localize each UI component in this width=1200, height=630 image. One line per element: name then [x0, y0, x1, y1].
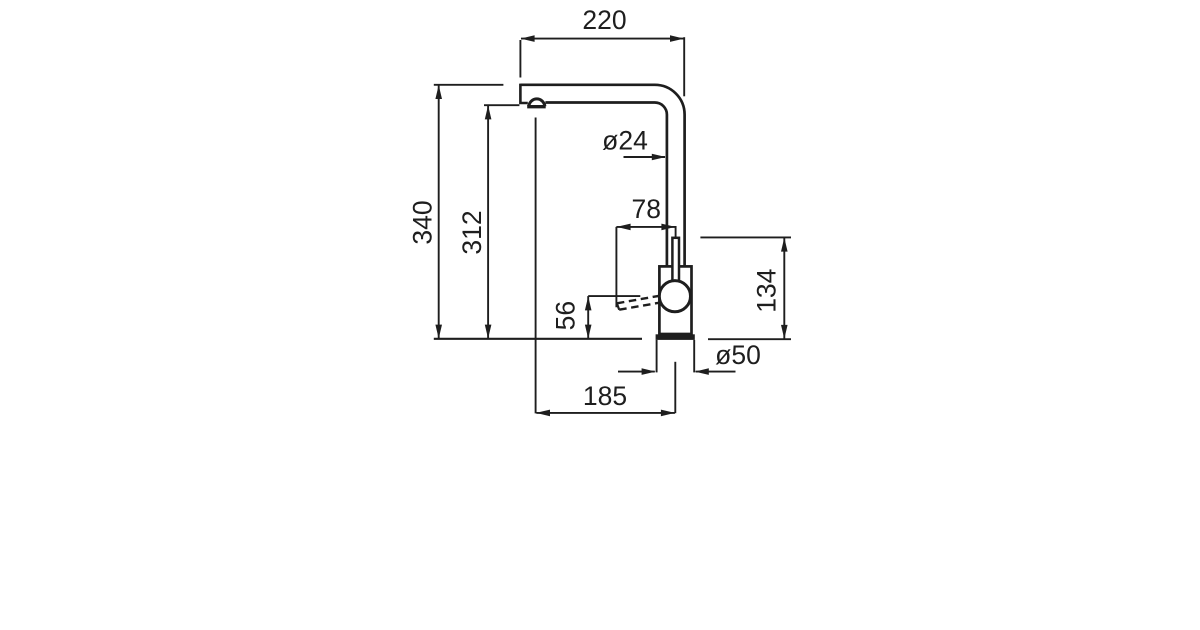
- dashed lever alternate position upper line: [617, 296, 659, 303]
- wire: spout tip left edge and step: [520, 84, 527, 103]
- dim 220 line: [521, 38, 684, 40]
- svg-text:ø24: ø24: [602, 126, 648, 156]
- svg-text:134: 134: [752, 269, 782, 313]
- wire: spout inner contour (underside line, bend, inner riser wall): [545, 103, 667, 267]
- arrowhead 312 down: [485, 325, 492, 339]
- dim 220 left extension: [519, 40, 521, 78]
- arrowhead 134 up: [781, 238, 788, 252]
- counter baseline right segment: [708, 338, 791, 340]
- counter baseline left segment: [434, 338, 642, 340]
- dia50 right extension below flange: [693, 340, 695, 373]
- svg-text:340: 340: [408, 200, 438, 244]
- dashed lever alternate position lower line: [619, 303, 659, 310]
- body of mixer (cartridge housing): [659, 266, 691, 334]
- dia50 left extension below flange: [656, 340, 658, 373]
- dim 185 right extension: [674, 362, 676, 413]
- dia50 left leader: [618, 371, 655, 373]
- svg-text:312: 312: [457, 210, 487, 254]
- dim 312 top extension: [484, 104, 519, 106]
- dim 56 line: [587, 296, 589, 338]
- dia24 leader line: [624, 156, 666, 158]
- dim 78 line with drop to lever: [616, 227, 675, 237]
- dim 134 top extension: [700, 236, 791, 238]
- svg-text:78: 78: [631, 194, 660, 224]
- dashed lever end cap: [617, 303, 620, 310]
- arrowhead 220 right: [670, 35, 684, 42]
- svg-text:185: 185: [583, 381, 627, 411]
- arrowhead 185 right: [661, 410, 675, 417]
- arrowhead 340 down: [435, 325, 442, 339]
- arrowhead dia50 right-pointing: [642, 368, 656, 375]
- wire: spout outer contour (top line, bend, outer riser wall): [520, 85, 684, 266]
- arrowhead dia50 left-pointing: [695, 368, 709, 375]
- dim 220 right extension: [683, 37, 685, 96]
- arrowhead 56 down: [585, 325, 592, 339]
- dim 185 line: [536, 412, 675, 414]
- dim 78 left extension: [615, 227, 617, 307]
- aerator base thick line: [527, 105, 546, 108]
- aerator dome at spout tip: [529, 99, 545, 106]
- arrowhead 220 left: [521, 35, 535, 42]
- arrowhead 312 up: [485, 105, 492, 119]
- arrowhead 134 down: [781, 325, 788, 339]
- dim 340 line: [438, 86, 440, 339]
- arrowhead dia24 right: [652, 154, 666, 161]
- arrowhead 78 left: [617, 224, 631, 231]
- dim 312 line: [487, 106, 489, 338]
- svg-text:ø50: ø50: [715, 340, 761, 370]
- dim 134 line: [783, 238, 785, 339]
- lever handle shaft: [672, 238, 679, 284]
- svg-text:56: 56: [551, 301, 581, 330]
- arrowhead 56 up: [585, 296, 592, 310]
- dim 340 top extension: [434, 84, 504, 86]
- arrowhead 78 right: [661, 224, 675, 231]
- dim 185 left extension: [535, 118, 537, 414]
- ball joint circle: [659, 281, 690, 312]
- dia50 right leader: [696, 371, 736, 373]
- dim 56 top extension: [588, 295, 640, 297]
- arrowhead 185 left: [536, 410, 550, 417]
- arrowhead 340 up: [435, 85, 442, 99]
- base flange (filled): [656, 334, 695, 340]
- svg-text:220: 220: [582, 5, 626, 35]
